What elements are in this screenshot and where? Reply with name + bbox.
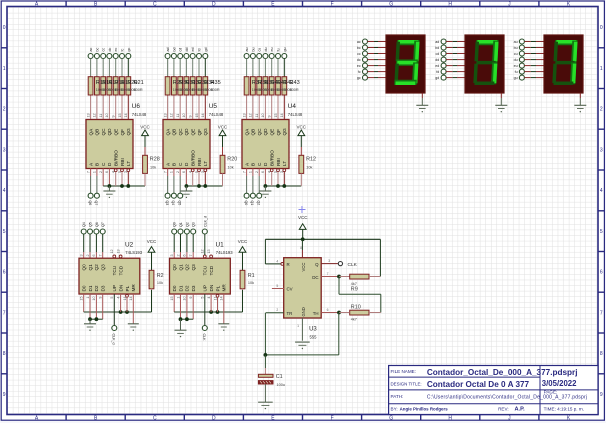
PL pin bubble xyxy=(216,294,219,297)
wire xyxy=(198,77,200,95)
wire xyxy=(283,59,285,77)
wire xyxy=(258,169,260,177)
inverted pin bubble xyxy=(270,169,273,172)
svg-text:1: 1 xyxy=(249,171,253,173)
wire xyxy=(277,59,279,77)
svg-text:ad: ad xyxy=(166,48,170,52)
ground xyxy=(128,323,139,325)
wire xyxy=(446,77,453,79)
svg-text:DN: DN xyxy=(209,285,214,292)
svg-text:B: B xyxy=(95,163,100,166)
svg-text:4k7: 4k7 xyxy=(351,282,357,286)
ground xyxy=(84,323,96,325)
segment g xyxy=(555,61,574,65)
svg-text:11: 11 xyxy=(99,114,103,118)
terminal CLK (output) xyxy=(338,262,342,266)
svg-text:U5: U5 xyxy=(209,103,218,110)
svg-text:CV: CV xyxy=(287,287,293,292)
segment b xyxy=(492,41,498,63)
svg-text:QA: QA xyxy=(88,128,93,136)
wire xyxy=(89,234,91,252)
wire xyxy=(185,77,187,95)
wire xyxy=(115,172,117,186)
svg-text:D3: D3 xyxy=(101,285,106,291)
wire xyxy=(126,297,128,312)
svg-text:D0: D0 xyxy=(82,285,87,291)
svg-text:cd: cd xyxy=(179,48,183,52)
svg-text:PATH:: PATH: xyxy=(391,394,404,399)
resistor R28 10k xyxy=(143,155,148,173)
wire xyxy=(192,234,194,252)
resistor network resistor 6 xyxy=(197,77,202,95)
R pin bubble xyxy=(281,263,284,266)
svg-text:QG: QG xyxy=(282,128,287,136)
svg-text:Contador Octal De 0 A 377: Contador Octal De 0 A 377 xyxy=(427,380,530,389)
wire xyxy=(102,234,104,252)
svg-text:15: 15 xyxy=(170,297,174,301)
svg-text:TCU: TCU xyxy=(203,265,208,275)
wire xyxy=(113,294,115,325)
segment e xyxy=(473,64,478,84)
wire xyxy=(151,289,153,290)
svg-text:D3: D3 xyxy=(191,285,196,291)
resistor network resistor 3 xyxy=(257,77,262,95)
svg-text:QG: QG xyxy=(203,128,208,136)
wire xyxy=(204,59,206,77)
svg-text:7: 7 xyxy=(3,310,6,316)
svg-text:TCU: TCU xyxy=(112,265,117,275)
wire xyxy=(338,313,340,355)
wire xyxy=(173,59,175,77)
svg-text:Q0: Q0 xyxy=(172,264,177,271)
wire xyxy=(246,59,248,77)
wire xyxy=(151,290,153,312)
svg-text:4: 4 xyxy=(207,297,211,299)
wire xyxy=(204,172,206,186)
svg-text:H: H xyxy=(448,1,452,7)
wire xyxy=(252,59,254,77)
wire xyxy=(524,65,531,67)
svg-text:R2: R2 xyxy=(157,273,164,279)
svg-text:9: 9 xyxy=(3,392,6,398)
svg-text:13: 13 xyxy=(116,249,120,253)
wire xyxy=(264,239,266,264)
svg-text:2: 2 xyxy=(176,254,180,256)
wire xyxy=(132,294,134,324)
svg-text:cu: cu xyxy=(514,52,518,56)
wire xyxy=(242,289,244,290)
svg-text:7: 7 xyxy=(242,171,246,173)
svg-text:cd: cd xyxy=(436,52,440,56)
inverted pin bubble xyxy=(198,169,201,172)
svg-text:74LS193: 74LS193 xyxy=(125,250,142,255)
pin numbers bottom xyxy=(163,171,205,173)
junction xyxy=(301,237,305,241)
wire xyxy=(252,77,254,95)
resistor network resistor 7 xyxy=(203,77,208,95)
svg-text:8: 8 xyxy=(600,351,603,357)
wire xyxy=(102,169,104,187)
svg-text:BI/RBO: BI/RBO xyxy=(270,150,275,166)
svg-text:R1: R1 xyxy=(248,273,255,279)
inverted pin bubble xyxy=(191,169,194,172)
svg-text:QE: QE xyxy=(270,129,275,136)
wire xyxy=(95,294,97,319)
svg-text:10: 10 xyxy=(261,113,265,117)
svg-text:D1: D1 xyxy=(88,285,93,291)
svg-text:PL: PL xyxy=(125,285,130,291)
svg-text:Q5: Q5 xyxy=(177,201,181,206)
svg-text:dd: dd xyxy=(185,48,189,52)
wire xyxy=(127,59,129,77)
wire xyxy=(121,172,123,186)
svg-text:DESIGN TITLE:: DESIGN TITLE: xyxy=(391,381,422,386)
svg-text:10k: 10k xyxy=(157,281,163,285)
wire xyxy=(89,319,91,324)
svg-text:7: 7 xyxy=(600,310,603,316)
svg-text:8: 8 xyxy=(3,351,6,357)
wire xyxy=(271,172,273,186)
resistor network resistor 4 xyxy=(184,77,189,95)
svg-text:QC: QC xyxy=(178,128,183,136)
svg-text:gd: gd xyxy=(204,48,208,52)
wire xyxy=(446,59,453,61)
svg-text:4: 4 xyxy=(276,259,278,263)
svg-text:7: 7 xyxy=(99,254,103,256)
ground xyxy=(175,329,187,331)
svg-text:10k: 10k xyxy=(228,166,234,170)
svg-text:6: 6 xyxy=(105,171,109,173)
wire xyxy=(192,294,194,319)
junction xyxy=(126,184,130,188)
svg-text:CLK_d: CLK_d xyxy=(203,216,207,227)
svg-text:Q4: Q4 xyxy=(82,222,86,227)
svg-text:Q0: Q0 xyxy=(244,201,248,206)
wire xyxy=(192,172,194,186)
wire xyxy=(167,59,169,77)
svg-text:ed: ed xyxy=(435,64,439,68)
segment c xyxy=(491,62,497,84)
wire xyxy=(89,294,91,319)
svg-text:U4: U4 xyxy=(288,103,297,110)
wire xyxy=(90,77,92,95)
svg-text:C1: C1 xyxy=(276,374,283,380)
segment e xyxy=(394,64,399,84)
svg-text:4k7: 4k7 xyxy=(351,318,357,322)
svg-text:13: 13 xyxy=(86,113,90,117)
wire xyxy=(180,294,182,319)
svg-text:fu: fu xyxy=(277,49,281,52)
segment f xyxy=(553,42,558,62)
svg-text:Q3: Q3 xyxy=(191,264,196,271)
wire xyxy=(120,294,122,312)
junction xyxy=(209,310,213,314)
svg-text:5: 5 xyxy=(600,229,603,235)
resistor network resistor 5 xyxy=(113,77,118,95)
wire xyxy=(369,312,381,314)
wire xyxy=(173,77,175,95)
svg-text:R35: R35 xyxy=(211,80,221,86)
wire xyxy=(204,294,206,325)
svg-text:6: 6 xyxy=(183,254,187,256)
svg-text:GND: GND xyxy=(301,307,306,316)
svg-text:ec: ec xyxy=(114,48,118,52)
pin 3 wire Q to CLK xyxy=(321,263,338,265)
pin 8 wire (VCC) xyxy=(301,239,303,250)
resistor network resistor 6 xyxy=(276,77,281,95)
svg-text:VCC: VCC xyxy=(301,263,306,272)
svg-text:TCD: TCD xyxy=(209,265,214,275)
wire xyxy=(108,169,110,187)
svg-text:Q3: Q3 xyxy=(101,264,106,271)
junction xyxy=(125,310,129,314)
svg-text:du: du xyxy=(264,48,268,52)
wire xyxy=(242,290,244,312)
ground (555) xyxy=(295,341,310,343)
wire xyxy=(102,59,104,77)
svg-text:12: 12 xyxy=(201,249,205,253)
svg-text:dd: dd xyxy=(435,58,439,62)
svg-text:Q6: Q6 xyxy=(95,222,99,227)
svg-text:QD: QD xyxy=(107,128,112,136)
wire xyxy=(127,172,129,186)
wire xyxy=(264,169,266,187)
wire bus xyxy=(174,311,242,313)
segment d xyxy=(474,82,494,86)
svg-text:bd: bd xyxy=(435,46,439,50)
ground xyxy=(108,186,110,191)
svg-text:BY:: BY: xyxy=(391,406,398,411)
svg-text:10k: 10k xyxy=(248,281,254,285)
terminal Q0 xyxy=(244,193,249,198)
svg-text:6: 6 xyxy=(261,171,265,173)
wire xyxy=(524,41,531,43)
resistor network resistor 3 xyxy=(101,77,106,95)
svg-text:10k: 10k xyxy=(150,166,156,170)
svg-text:14: 14 xyxy=(124,113,128,117)
terminal Q7 xyxy=(94,193,99,198)
svg-text:R21: R21 xyxy=(134,80,144,86)
svg-text:2: 2 xyxy=(3,107,6,113)
svg-text:VCC: VCC xyxy=(238,239,248,244)
74LS48 decoder U5 xyxy=(163,120,210,169)
wire xyxy=(185,169,187,187)
wire xyxy=(579,93,581,98)
svg-text:F: F xyxy=(331,416,334,422)
wire xyxy=(144,136,146,147)
resistor network resistor 6 xyxy=(120,77,125,95)
wire xyxy=(258,59,260,77)
svg-text:5: 5 xyxy=(201,297,205,299)
svg-text:VCC: VCC xyxy=(218,124,228,129)
svg-text:H: H xyxy=(448,416,452,422)
resistor labels (overlapping) xyxy=(173,80,221,92)
svg-text:LT: LT xyxy=(282,161,287,166)
svg-text:UP: UP xyxy=(203,285,208,292)
wire xyxy=(446,41,453,43)
svg-text:R12: R12 xyxy=(306,156,316,162)
svg-text:VCC: VCC xyxy=(297,124,307,129)
svg-text:Q3: Q3 xyxy=(192,222,196,227)
svg-text:DC: DC xyxy=(312,275,318,280)
resistor labels (overlapping) xyxy=(252,80,300,92)
svg-text:D2: D2 xyxy=(94,285,99,291)
svg-text:B: B xyxy=(172,163,177,166)
wire xyxy=(186,234,188,252)
svg-text:555: 555 xyxy=(310,334,318,339)
pin 7 wire DC xyxy=(321,276,339,278)
svg-text:74LS193: 74LS193 xyxy=(216,250,233,255)
svg-text:100R: 100R xyxy=(290,88,299,92)
pin 6 wire TH xyxy=(321,312,339,314)
svg-text:13: 13 xyxy=(207,249,211,253)
svg-text:100R: 100R xyxy=(211,88,220,92)
wire xyxy=(283,77,285,120)
svg-text:12: 12 xyxy=(93,113,97,117)
svg-text:eu: eu xyxy=(270,48,274,52)
svg-text:TH: TH xyxy=(313,311,319,316)
wire xyxy=(379,239,381,276)
wire xyxy=(524,59,531,61)
segment e xyxy=(552,64,557,84)
segment c xyxy=(412,62,418,84)
svg-text:12: 12 xyxy=(110,249,114,253)
svg-text:3/05/2022: 3/05/2022 xyxy=(542,379,577,388)
wire xyxy=(167,169,169,177)
svg-text:PL: PL xyxy=(215,285,220,291)
svg-text:15: 15 xyxy=(274,113,278,117)
segment a xyxy=(397,40,419,45)
resistor R1 10k xyxy=(240,270,245,289)
svg-text:2: 2 xyxy=(276,308,278,312)
junction xyxy=(276,184,280,188)
pin numbers bottom xyxy=(86,171,128,173)
svg-text:Q4: Q4 xyxy=(171,201,175,206)
pin numbers top xyxy=(80,249,121,256)
wire xyxy=(264,59,266,77)
svg-text:3: 3 xyxy=(328,259,330,263)
svg-text:Q2: Q2 xyxy=(185,264,190,271)
svg-text:D: D xyxy=(212,416,216,422)
wire to R pin xyxy=(265,263,280,265)
svg-text:RBI: RBI xyxy=(120,158,125,166)
svg-text:Q6: Q6 xyxy=(88,201,92,206)
svg-text:VCC: VCC xyxy=(147,239,157,244)
svg-text:6: 6 xyxy=(600,270,603,276)
svg-text:RBI: RBI xyxy=(197,158,202,166)
wire xyxy=(186,294,188,319)
svg-text:15: 15 xyxy=(80,297,84,301)
svg-text:F: F xyxy=(331,1,334,7)
svg-text:9: 9 xyxy=(189,297,193,299)
svg-text:bc: bc xyxy=(357,46,361,50)
svg-text:G: G xyxy=(389,416,393,422)
svg-text:QF: QF xyxy=(120,129,125,136)
svg-text:7: 7 xyxy=(86,171,90,173)
segment c xyxy=(570,62,576,84)
wire bus to pull-up xyxy=(186,185,222,187)
svg-text:R10: R10 xyxy=(351,305,361,311)
wire bus to pull-up xyxy=(265,185,301,187)
svg-text:C: C xyxy=(153,416,157,422)
wire xyxy=(242,252,244,270)
resistor network resistor 7 xyxy=(282,77,287,95)
svg-text:10: 10 xyxy=(182,113,186,117)
svg-text:6: 6 xyxy=(3,270,6,276)
svg-text:R9: R9 xyxy=(351,287,358,293)
wire xyxy=(264,384,266,402)
svg-text:LT: LT xyxy=(203,161,208,166)
TCU pin bubble xyxy=(113,255,116,258)
svg-text:gu: gu xyxy=(514,76,518,80)
ground xyxy=(218,323,229,325)
wire xyxy=(446,65,453,67)
wire xyxy=(121,59,123,77)
svg-text:cc: cc xyxy=(357,52,361,56)
svg-text:1: 1 xyxy=(3,66,6,72)
wire xyxy=(271,77,273,95)
wire xyxy=(446,53,453,55)
inverted pin bubble xyxy=(121,169,124,172)
wire xyxy=(446,47,453,49)
wire xyxy=(368,77,375,79)
segment b xyxy=(413,41,419,63)
resistor network resistor 7 xyxy=(126,77,131,95)
svg-text:dc: dc xyxy=(108,48,112,52)
wire xyxy=(121,77,123,95)
terminal Q4 xyxy=(171,193,176,198)
origin marker xyxy=(299,206,306,213)
junction xyxy=(95,317,99,321)
inverted pin bubble xyxy=(127,169,130,172)
wire xyxy=(368,59,375,61)
inverted pin bubble xyxy=(277,169,280,172)
svg-text:D: D xyxy=(212,1,216,7)
svg-text:1: 1 xyxy=(86,297,90,299)
wire xyxy=(204,77,206,120)
junction xyxy=(185,317,189,321)
svg-text:Q7: Q7 xyxy=(101,222,105,227)
wire xyxy=(115,77,117,95)
junction xyxy=(179,317,183,321)
svg-text:cc: cc xyxy=(102,48,106,52)
svg-text:QC: QC xyxy=(101,128,106,136)
svg-text:MR: MR xyxy=(131,284,136,292)
svg-text:Q2: Q2 xyxy=(256,201,260,206)
wire xyxy=(368,41,375,43)
TCD pin bubble xyxy=(210,255,213,258)
wire xyxy=(222,136,224,147)
wire xyxy=(271,59,273,77)
wire xyxy=(179,169,181,177)
svg-text:BI/RBO: BI/RBO xyxy=(191,150,196,166)
wire xyxy=(223,294,225,324)
junction xyxy=(197,184,201,188)
svg-text:9: 9 xyxy=(99,297,103,299)
junction xyxy=(108,184,112,188)
wire DC to R10 xyxy=(338,277,340,295)
resistor network resistor 4 xyxy=(107,77,112,95)
svg-text:7: 7 xyxy=(163,171,167,173)
svg-text:Q5: Q5 xyxy=(89,222,93,227)
TCD pin bubble xyxy=(119,255,122,258)
svg-text:R28: R28 xyxy=(150,156,160,162)
svg-text:QB: QB xyxy=(172,129,177,136)
svg-text:VCC: VCC xyxy=(298,215,308,220)
svg-text:10k: 10k xyxy=(306,166,312,170)
pin numbers bottom xyxy=(80,297,134,301)
inverted pin bubble xyxy=(204,169,207,172)
